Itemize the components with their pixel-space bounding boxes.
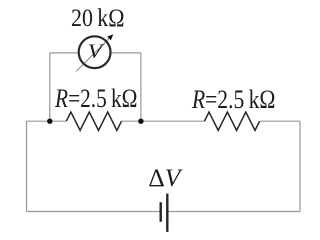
battery B1 long plate	[166, 194, 168, 232]
node A junction dot	[47, 119, 52, 124]
wire: right vertical side	[299, 121, 301, 211]
wire: voltmeter branch left horizontal	[50, 52, 79, 54]
wire: battery to bottom left corner	[27, 211, 161, 213]
wire: bottom right to battery	[167, 211, 300, 213]
voltmeter M1 body circle	[79, 36, 111, 68]
wire: node A to left resistor	[50, 120, 67, 122]
node B junction dot	[138, 119, 143, 124]
voltmeter M1 needle arrowhead	[107, 34, 113, 40]
wire: left vertical side	[26, 121, 28, 211]
battery B1 short plate	[159, 202, 161, 222]
voltmeter M1 needle	[76, 38, 110, 72]
wire: voltmeter branch left vertical	[49, 53, 51, 121]
wire: right resistor to right corner	[260, 120, 300, 122]
resistor R1 2.5 kOhm (left)	[66, 112, 121, 130]
svg-text:ΔV: ΔV	[148, 165, 183, 192]
wire: node B to right resistor	[141, 120, 205, 122]
resistor R2 2.5 kOhm (right)	[204, 112, 259, 130]
wire: left resistor to node B	[122, 120, 141, 122]
svg-text:20 kΩ: 20 kΩ	[71, 5, 125, 32]
wire: voltmeter branch right vertical	[140, 53, 142, 121]
svg-text:R=2.5 kΩ: R=2.5 kΩ	[191, 84, 275, 114]
wire: main line left corner to node A	[27, 120, 50, 122]
svg-text:R=2.5 kΩ: R=2.5 kΩ	[54, 83, 137, 113]
wire: voltmeter branch right horizontal	[111, 52, 141, 54]
